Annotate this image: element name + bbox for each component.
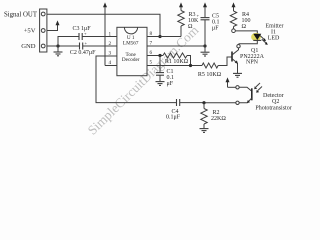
power +5V arrow near connector: [56, 20, 60, 25]
capacitor C1: [156, 56, 164, 82]
wire Signal OUT rail: [47, 14, 160, 36]
label Emitter I1 LED: [266, 24, 284, 42]
ground connector: [54, 52, 63, 56]
svg-text:0.1μF: 0.1μF: [166, 115, 181, 121]
label C1 0.1uF: [167, 69, 175, 87]
wire pin7 to ground: [147, 45, 205, 47]
power +5V arrow R4: [232, 2, 236, 7]
wire +5V stub from connector: [47, 25, 58, 31]
wire pin6 to R1: [147, 55, 163, 57]
power +5V arrow R3: [179, 2, 183, 7]
resistor R4: [230, 7, 236, 33]
node pin8 junction: [158, 35, 161, 38]
label R2 22Kohm: [211, 110, 226, 122]
svg-text:NPN: NPN: [246, 60, 259, 66]
svg-text:0.1: 0.1: [167, 75, 175, 81]
svg-text:I1: I1: [271, 29, 276, 35]
ground Q1 emitter: [233, 73, 242, 77]
svg-text:GND: GND: [21, 43, 36, 50]
node pin5 junction: [189, 64, 192, 67]
resistor R2: [201, 103, 207, 129]
svg-text:4: 4: [109, 60, 112, 66]
label Q1 PN2222A NPN: [240, 48, 265, 65]
svg-text:LED: LED: [268, 36, 280, 42]
node C4 R2 Q2 junction: [202, 101, 205, 104]
svg-text:+: +: [197, 13, 200, 18]
svg-text:8: 8: [150, 31, 153, 37]
label Detector Q2 Phototransistor: [255, 93, 291, 112]
svg-text:7: 7: [150, 40, 153, 46]
wire pin8 to R3: [147, 36, 181, 38]
connector J1: [40, 9, 47, 52]
label R4 100 ohm: [242, 12, 251, 30]
capacitor C2: [80, 41, 88, 50]
LED light arrows: [260, 36, 265, 40]
svg-text:Ω: Ω: [188, 24, 193, 30]
op-amp U1 LM567 IC body: [117, 27, 147, 75]
wire pin4: [105, 65, 117, 67]
svg-text:22KΩ: 22KΩ: [211, 116, 226, 122]
svg-text:R5 10KΩ: R5 10KΩ: [198, 72, 222, 78]
label C4 0.1uF: [166, 109, 181, 121]
wire C3 to pin1: [82, 36, 117, 38]
wire C2 to pin2: [83, 45, 117, 47]
svg-text:6: 6: [150, 50, 153, 56]
capacitor C4: [177, 99, 205, 106]
watermark SimpleCircuitDiagram.Com: [85, 22, 202, 138]
wire GND to C3: [58, 37, 79, 52]
svg-text:2: 2: [109, 41, 112, 47]
svg-text:μF: μF: [167, 81, 174, 87]
svg-text:C2 0.47μF: C2 0.47μF: [70, 50, 96, 56]
node GND junction: [56, 44, 59, 47]
svg-text:+5V: +5V: [24, 28, 36, 35]
node pin6 junction: [158, 54, 161, 57]
svg-text:Ω: Ω: [242, 24, 247, 30]
node pin7 junction: [203, 44, 206, 47]
svg-text:R1 10KΩ: R1 10KΩ: [165, 59, 189, 65]
svg-text:+: +: [85, 41, 88, 46]
phototransistor Q2: [204, 83, 262, 105]
svg-text:μF: μF: [212, 26, 219, 32]
power +5V arrow Q2 collector: [226, 77, 230, 87]
wire pin5: [147, 65, 202, 67]
svg-text:1: 1: [109, 31, 112, 37]
svg-text:Q2: Q2: [272, 99, 279, 105]
resistor R1: [163, 53, 191, 66]
wire GND net: [47, 45, 79, 47]
power +5V arrow C5: [203, 2, 207, 7]
svg-text:3: 3: [109, 50, 112, 56]
transistor Q1 PN2222A: [232, 45, 240, 74]
ground C1: [156, 82, 165, 86]
Q2 light arrows: [256, 83, 260, 87]
svg-text:Signal OUT: Signal OUT: [4, 11, 38, 18]
capacitor C3: [79, 31, 87, 40]
ground pin7: [201, 46, 210, 56]
svg-text:LM567: LM567: [123, 40, 139, 46]
resistor R3: [178, 7, 184, 37]
label C5 0.1uF: [212, 14, 220, 32]
LED I1 emitter: [235, 31, 267, 45]
power +5V arrow to pin4: [103, 2, 107, 65]
wire pin3 to C4 line: [96, 56, 177, 103]
ground R2: [200, 129, 209, 133]
svg-text:5: 5: [150, 59, 153, 65]
label R3 10K ohm: [188, 12, 199, 30]
capacitor C5: [197, 7, 210, 46]
resistor R5: [202, 57, 232, 68]
svg-text:Decoder: Decoder: [122, 57, 140, 63]
svg-text:Phototransistor: Phototransistor: [255, 106, 291, 112]
svg-text:C3 1μF: C3 1μF: [72, 26, 91, 32]
